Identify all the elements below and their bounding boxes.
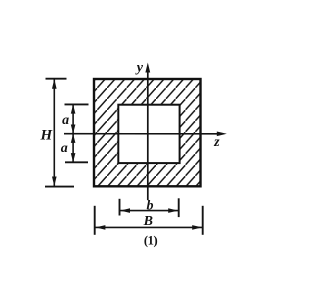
svg-text:b: b xyxy=(147,198,154,213)
y axis (vertical) xyxy=(145,63,150,201)
svg-text:z: z xyxy=(213,135,220,150)
svg-text:y: y xyxy=(135,60,144,75)
svg-text:a: a xyxy=(61,141,68,156)
H dimension xyxy=(45,79,74,187)
svg-text:B: B xyxy=(143,214,153,229)
svg-text:a: a xyxy=(62,113,69,128)
a dimensions (two stacked) xyxy=(65,104,89,162)
z axis (horizontal) xyxy=(64,132,227,137)
inner square hole xyxy=(118,105,179,163)
svg-text:(1): (1) xyxy=(144,233,158,247)
B dimension xyxy=(95,206,203,235)
b dimension xyxy=(120,198,179,217)
svg-text:H: H xyxy=(39,127,53,143)
hatched outer square section xyxy=(94,79,201,186)
